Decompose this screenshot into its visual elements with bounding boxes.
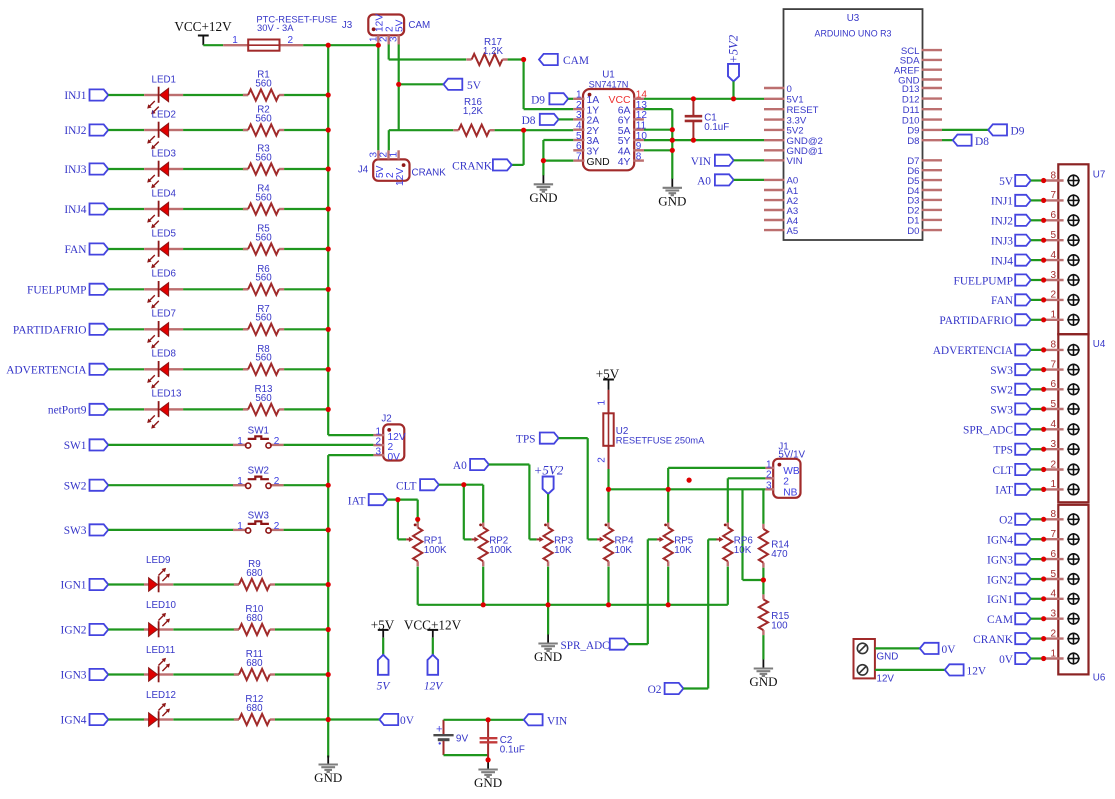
svg-text:LED10: LED10 [146,600,177,611]
svg-text:LED8: LED8 [152,349,177,360]
potentiometer RP6 10K [724,524,727,527]
wire SPR_ADC right [629,643,648,645]
connector U7 [1058,164,1088,334]
svg-text:U3: U3 [847,13,860,24]
U3 pin D3 [922,199,943,201]
wire RP5 bottom to GND rail [667,567,669,605]
svg-text:3: 3 [1050,439,1056,450]
svg-text:2: 2 [597,457,608,463]
svg-text:1: 1 [237,476,243,487]
wire INJ1 flag to LED1 [108,94,144,96]
wire INJ3 flag to LED3 [108,168,144,170]
U1 pin 12 (6Y) [633,118,644,120]
svg-text:INJ4: INJ4 [64,204,86,216]
svg-text:4: 4 [1050,419,1056,430]
svg-text:A0: A0 [697,175,711,187]
junction U7 pin 2 [1041,297,1046,302]
svg-text:6: 6 [1050,549,1056,560]
power flag +5V2 (top) [728,64,739,82]
U3 pin GND@2 [764,139,785,141]
junction IGN4 at 0V bus [326,717,331,722]
wire J3 pin2 down [388,45,390,60]
wire U1 right vertical [671,109,673,179]
svg-text:LED13: LED13 [152,389,183,400]
svg-text:12V: 12V [967,666,987,678]
svg-text:+: + [436,723,442,735]
wire R10 to 0V bus [275,628,328,630]
svg-text:SW3: SW3 [248,510,270,521]
junction C1 top [691,96,696,101]
svg-text:8: 8 [1050,340,1056,351]
svg-text:7: 7 [1050,190,1056,201]
U3 pin GND@1 [764,149,785,151]
wire LED9 to R9 [173,583,239,585]
wire GND rail drop [547,605,549,635]
svg-text:LED9: LED9 [146,555,171,566]
wire switch SW3 to bus [284,529,329,531]
svg-text:1: 1 [597,400,608,406]
svg-text:5V: 5V [395,19,406,32]
svg-text:SPR_ADC: SPR_ADC [561,640,610,652]
U3 pin A2 [764,199,785,201]
wire RP1 bottom to GND rail [417,567,419,605]
wire LED6 to R6 [183,288,248,290]
svg-text:CRANK: CRANK [973,634,1014,646]
svg-text:7: 7 [1050,529,1056,540]
wire IAT node down [397,500,399,540]
U1 pin 3 (2A) [573,118,584,120]
svg-text:680: 680 [246,703,263,714]
wire J2 pin3 to 0V bus [328,454,373,456]
svg-text:2: 2 [274,476,280,487]
capacitor C1 0.1uF [692,99,694,115]
wire U3 D8 to flag [942,139,953,141]
wire J1 pin2 down to RP6 [727,478,729,522]
svg-text:GND: GND [534,649,562,664]
svg-text:ADVERTENCIA: ADVERTENCIA [6,365,87,377]
power flag +5V2 (RP3) [543,477,554,495]
svg-text:6: 6 [1050,210,1056,221]
U3 pin A1 [764,189,785,191]
wire R16 to CRANK node [495,129,524,131]
wire IAT to RP1 top [417,500,419,523]
U3 pin D1 [922,219,943,221]
U3 pin D12 [922,97,943,99]
svg-text:560: 560 [255,113,272,124]
wire SPR_ADC up [647,539,649,644]
junction GND rail [481,602,486,607]
net flag D8 (right) [953,135,972,146]
svg-text:5V1: 5V1 [787,95,804,106]
svg-text:SW3: SW3 [64,525,87,537]
svg-text:RESETFUSE 250mA: RESETFUSE 250mA [616,435,705,446]
net flag 0V (terminal) [920,643,939,654]
svg-text:LED3: LED3 [152,148,177,159]
junction IGN1 at 0V bus [326,582,331,587]
wire VIN flag to U3 [734,159,764,161]
svg-text:D8: D8 [907,136,919,147]
junction INJ2 at 12V bus [326,127,331,132]
svg-text:100: 100 [771,621,788,632]
wire IGN2 flag to LED10 [108,628,144,630]
wire U1 pin5 left [543,139,573,141]
U3 pin 0 [764,87,785,89]
connector U4 [1058,334,1088,502]
svg-text:INJ1: INJ1 [991,196,1013,208]
svg-text:D9: D9 [531,94,545,106]
junction U4 pin 4 [1041,427,1046,432]
U1 pin 8 (4Y) [633,159,644,161]
svg-text:3: 3 [389,36,400,42]
svg-text:SW2: SW2 [990,385,1013,397]
svg-text:INJ1: INJ1 [64,90,86,102]
wire LED2 to R2 [183,129,248,131]
wire J1 pin1 WB [668,467,765,469]
svg-text:J2: J2 [381,414,391,425]
wire D8 to U1 pin3 [559,118,574,120]
junction +5V2 at 5V1 wire [731,96,736,101]
junction U7 pin 8 [1041,178,1046,183]
junction U6 pin 4 [1041,596,1046,601]
svg-text:IAT: IAT [995,485,1013,497]
battery BT1 9V [443,720,445,735]
svg-text:O2: O2 [648,684,662,696]
U1 pin 1 (1A) [573,98,584,100]
U3 pin D2 [922,209,943,211]
svg-text:IGN3: IGN3 [61,670,87,682]
svg-text:6: 6 [1050,379,1056,390]
wire LED4 to R4 [183,208,248,210]
junction 5V rail at RP4 [606,487,611,492]
U3 pin D7 [922,159,943,161]
wire R2 to 12V bus [284,129,328,131]
junction U4 pin 8 [1041,347,1046,352]
svg-text:D13: D13 [902,84,920,95]
wire A0 flag to U3 [734,179,764,181]
svg-text:560: 560 [255,152,272,163]
junction FUELPUMP at 12V bus [326,287,331,292]
U3 pin AREF [922,68,943,70]
svg-text:9V: 9V [456,734,469,745]
svg-text:7: 7 [1050,359,1056,370]
svg-text:1,2K: 1,2K [483,46,504,57]
net flag 12V (terminal) [945,664,964,675]
svg-text:1: 1 [389,152,400,158]
svg-text:IGN2: IGN2 [61,625,87,637]
wire +5V2 to RP3 top [547,494,549,523]
U3 pin D13 [922,87,943,89]
U1 pin 10 (5Y) [633,139,644,141]
wire R7 to 12V bus [284,328,328,330]
svg-text:VIN: VIN [787,156,803,167]
wire A0 to RP3 wiper [529,538,536,540]
wire R16 input [389,129,454,131]
junction IAT node [395,497,400,502]
wire IGN3 flag to LED11 [108,673,144,675]
svg-text:3: 3 [1050,270,1056,281]
wire LED13 to R13 [183,408,248,410]
svg-text:3: 3 [375,447,381,458]
junction INJ4 at 12V bus [326,206,331,211]
wire J1 pin2 [728,477,766,479]
wire RP4 bottom to GND rail [607,567,609,605]
wire U1 pin7 link [543,160,573,162]
U1 pin 2 (1Y) [573,108,584,110]
junction pin11 node [670,127,675,132]
svg-text:2: 2 [274,521,280,532]
svg-text:GND: GND [314,770,342,785]
junction U6 pin 2 [1041,636,1046,641]
svg-text:5: 5 [1050,230,1056,241]
svg-text:560: 560 [255,353,272,364]
svg-text:0V: 0V [388,452,401,463]
junction U6 pin 7 [1041,537,1046,542]
svg-text:IGN2: IGN2 [987,574,1013,586]
junction C2 bottom [486,757,491,762]
svg-text:INJ3: INJ3 [64,164,86,176]
svg-text:TPS: TPS [516,434,536,446]
wire LED12 to R12 [173,718,239,720]
svg-text:12V: 12V [374,14,385,32]
junction U7 pin 4 [1041,258,1046,263]
svg-text:INJ2: INJ2 [991,216,1013,228]
junction 5V rail at RP5 [666,487,671,492]
net flag VIN (bottom) [524,714,543,725]
svg-text:U4: U4 [1093,339,1106,350]
svg-text:1: 1 [1050,479,1056,490]
wire SPR_ADC to RP5 wiper [648,538,657,540]
svg-text:100K: 100K [424,545,447,556]
junction 12V bus top [326,43,331,48]
wire R15 to GND [762,635,764,659]
wire O2 right [683,687,708,689]
wire U1 pin9 right [644,149,672,151]
svg-text:5V: 5V [999,176,1014,188]
wire J1 pin3 to R14 [762,489,764,524]
junction U4 pin 2 [1041,467,1046,472]
wire LED3 to R3 [183,168,248,170]
svg-text:2: 2 [783,476,789,487]
wire RP3 bottom to GND rail [547,567,549,605]
junction RP1 top [415,517,420,522]
svg-text:VCC+12V: VCC+12V [174,19,232,34]
svg-text:470: 470 [771,549,788,560]
wire fuse to 12V bus [303,44,378,46]
ground GND bottom-left [327,756,329,765]
svg-text:CAM: CAM [563,55,589,67]
svg-text:A5: A5 [787,226,799,237]
svg-text:IGN4: IGN4 [987,535,1013,547]
svg-text:ADVERTENCIA: ADVERTENCIA [933,345,1014,357]
wire IAT right [388,499,418,501]
wire switch SW2 to bus [284,484,329,486]
ground GND (U1 left) [542,175,544,184]
U3 pin SCL [922,49,943,51]
svg-text:D8: D8 [522,115,536,127]
svg-text:+5V2: +5V2 [727,35,741,64]
svg-text:SW1: SW1 [248,425,269,436]
svg-text:IGN4: IGN4 [61,715,87,727]
svg-text:netPort9: netPort9 [48,405,87,417]
svg-text:10K: 10K [674,545,692,556]
junction GND rail [606,602,611,607]
svg-text:INJ2: INJ2 [64,125,86,137]
svg-text:INJ4: INJ4 [991,255,1013,267]
wire CLT to RP2 wiper [464,538,472,540]
svg-text:J3: J3 [342,20,353,31]
svg-text:5: 5 [1050,399,1056,410]
svg-text:100K: 100K [489,545,512,556]
wire switch SW1 to bus [284,444,374,446]
junction R14/R15 node [761,577,766,582]
svg-text:D8: D8 [975,136,989,148]
svg-text:IGN1: IGN1 [61,580,87,592]
junction U6 pin 6 [1041,557,1046,562]
wire VCC+12V to fuse F1 [203,44,223,46]
svg-text:1,2K: 1,2K [463,106,484,117]
svg-text:TPS: TPS [993,445,1013,457]
wire TPS down [587,438,589,539]
junction CLT node [461,482,466,487]
svg-text:560: 560 [255,313,272,324]
svg-text:560: 560 [255,273,272,284]
resistor R15 100 [762,594,764,599]
U3 pin D4 [922,189,943,191]
wire INJ4 flag to LED4 [108,208,144,210]
U3 pin SDA [922,59,943,61]
junction SW2 at 0V bus [326,483,331,488]
wire netPort9 flag to LED13 [108,408,144,410]
svg-text:CLT: CLT [993,465,1014,477]
svg-text:INJ3: INJ3 [991,236,1013,248]
U3 pin 5V2 [764,129,785,131]
svg-text:SW3: SW3 [990,365,1013,377]
wire U3 D9 to flag [942,129,988,131]
junction U6 pin 3 [1041,616,1046,621]
svg-text:LED2: LED2 [152,109,177,120]
ground GND (rail) [547,635,549,644]
wire CRANK node to U1 pin4 [524,129,574,131]
potentiometer RP2 100K [479,524,482,527]
wire U1 pin11 right [644,129,672,131]
svg-text:5: 5 [1050,569,1056,580]
junction IGN2 at 0V bus [326,627,331,632]
junction U6 pin 8 [1041,517,1046,522]
net flag 0V (bottom left) [379,714,398,725]
wire IGN4 to 0V flag [328,718,379,720]
svg-text:CAM: CAM [408,20,430,31]
junction stray dot [687,478,692,483]
junction U7 pin 7 [1041,198,1046,203]
svg-text:D11: D11 [903,105,920,116]
junction PARTIDAFRIO at 12V bus [326,327,331,332]
junction netPort9 at 12V bus [326,407,331,412]
junction U7 pin 3 [1041,277,1046,282]
svg-text:VIN: VIN [691,156,711,168]
U3 pin D9 [922,129,943,131]
svg-text:8: 8 [1050,170,1056,181]
svg-text:0V: 0V [999,654,1014,666]
svg-text:1: 1 [766,459,772,470]
wire CAM node down [522,60,524,110]
U3 pin D11 [922,108,943,110]
junction GND rail [666,602,671,607]
svg-text:680: 680 [246,613,263,624]
U3 pin D5 [922,179,943,181]
wire CRANK flag link [512,164,524,166]
wire R5 to 12V bus [284,248,328,250]
svg-text:SPR_ADC: SPR_ADC [963,425,1013,437]
svg-text:D9: D9 [1011,126,1025,138]
wire node to R15 [762,580,764,594]
wire to VIN flag [488,719,524,721]
svg-text:3: 3 [1050,609,1056,620]
wire A0 right [489,463,530,465]
U3 pin D8 [922,139,943,141]
U3 pin A5 [764,229,785,231]
svg-text:1: 1 [237,436,243,447]
svg-text:10K: 10K [615,545,633,556]
wire rail to RP5 top [667,489,669,522]
junction J3 pin1 node [376,43,381,48]
svg-text:SW1: SW1 [64,440,87,452]
junction U1 GND node [541,158,546,163]
wire terminal 12V to flag [875,669,945,671]
svg-text:2: 2 [1050,459,1056,470]
svg-text:12V: 12V [424,681,444,693]
junction U6 pin 5 [1041,576,1046,581]
wire IGN4 flag to LED12 [108,718,144,720]
junction ADVERTENCIA at 12V bus [326,367,331,372]
U1 pin 13 (6A) [633,108,644,110]
U3 pin D6 [922,169,943,171]
potentiometer RP3 10K [544,524,547,527]
wire terminal GND to 0V flag [875,647,920,649]
junction C2 top [486,717,491,722]
svg-text:O2: O2 [999,515,1013,527]
wire rail to RP4 top [607,489,609,522]
wire A0 down [528,465,530,540]
svg-text:CRANK: CRANK [412,168,447,179]
svg-text:4: 4 [1050,589,1056,600]
wire O2 to RP6 wiper [708,538,716,540]
wire LED1 to R1 [183,94,248,96]
svg-text:12V: 12V [395,168,406,186]
svg-text:1: 1 [1050,648,1056,659]
svg-text:5V: 5V [467,80,482,92]
junction U4 pin 1 [1041,487,1046,492]
svg-text:2: 2 [766,470,772,481]
U3 pin A0 [764,179,785,181]
svg-text:FAN: FAN [65,244,87,256]
svg-text:LED11: LED11 [146,645,175,656]
wire CLT node down [463,485,465,540]
wire CLT to RP2 top [482,485,484,523]
wire U2 to 5V rail [607,469,609,489]
wire WB down to rail [667,468,669,489]
wire J4 pin2 up [388,130,390,150]
svg-text:560: 560 [255,393,272,404]
resistor R14 470 [762,524,764,529]
svg-text:GND: GND [877,652,899,663]
wire battery bottom [444,754,489,756]
svg-text:12V: 12V [877,674,895,685]
junction INJ3 at 12V bus [326,166,331,171]
svg-text:VIN: VIN [547,716,567,728]
wire U1 pin10 to Arduino GND@2 [644,139,764,141]
U3 pin RESET [764,108,785,110]
U3 pin A4 [764,219,785,221]
